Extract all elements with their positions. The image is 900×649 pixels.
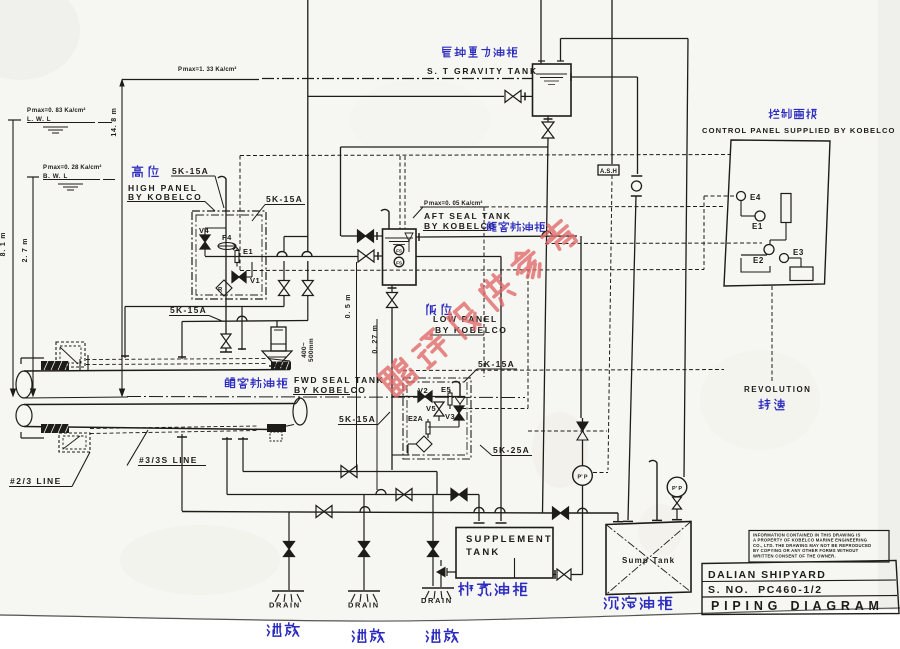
svg-text:P max=1. 33 Ka/cm²: P max=1. 33 Ka/cm²	[178, 66, 237, 73]
svg-text:DALIAN SHIPYARD: DALIAN SHIPYARD	[708, 569, 826, 581]
svg-text:SUPPLEMENT: SUPPLEMENT	[466, 534, 553, 545]
svg-text:V5: V5	[426, 404, 436, 413]
svg-text:REVOLUTION: REVOLUTION	[744, 385, 811, 394]
svg-text:F4: F4	[222, 233, 232, 242]
svg-text:#3/3S LINE: #3/3S LINE	[139, 455, 198, 465]
svg-text:V1: V1	[250, 276, 260, 285]
svg-text:R: R	[218, 288, 223, 294]
svg-text:WRITTEN CONSENT OF THE OWNER.: WRITTEN CONSENT OF THE OWNER.	[753, 553, 836, 558]
svg-text:A.S.H: A.S.H	[600, 169, 617, 175]
svg-text:5K-15A: 5K-15A	[478, 359, 515, 369]
svg-text:V3: V3	[445, 412, 455, 421]
svg-text:P max=0. 83 Ka/cm²: P max=0. 83 Ka/cm²	[27, 107, 86, 114]
svg-text:8. 1 m: 8. 1 m	[0, 232, 7, 257]
svg-text:BY KOBELCO: BY KOBELCO	[294, 385, 367, 395]
svg-text:5K-15A: 5K-15A	[172, 166, 209, 176]
svg-text:E1: E1	[752, 222, 763, 231]
svg-text:E2A: E2A	[408, 414, 424, 423]
svg-text:S. T GRAVITY TANK: S. T GRAVITY TANK	[427, 66, 538, 76]
svg-text:E1: E1	[243, 247, 253, 256]
svg-text:5K-15A: 5K-15A	[170, 305, 207, 315]
svg-text:Sump Tank: Sump Tank	[622, 556, 675, 565]
svg-text:P’ P: P’ P	[672, 486, 682, 492]
svg-text:P max=0. 05 Ka/cm²: P max=0. 05 Ka/cm²	[424, 200, 483, 207]
svg-text:V2: V2	[418, 386, 428, 395]
svg-text:E5: E5	[441, 385, 451, 394]
svg-text:DRAIN: DRAIN	[269, 601, 301, 610]
svg-text:400~: 400~	[301, 342, 308, 358]
svg-text:0. 5 m: 0. 5 m	[345, 294, 352, 319]
svg-text:500mm: 500mm	[308, 338, 315, 362]
svg-text:5K-25A: 5K-25A	[493, 445, 530, 455]
svg-text:FS: FS	[396, 249, 402, 254]
svg-text:FS: FS	[396, 261, 402, 266]
svg-text:BY KOBELCO: BY KOBELCO	[128, 192, 203, 202]
svg-text:E2: E2	[753, 256, 764, 265]
svg-text:FWD SEAL TANK: FWD SEAL TANK	[294, 375, 384, 385]
svg-text:P’ P: P’ P	[577, 475, 587, 481]
svg-text:CONTROL PANEL SUPPLIED BY KOBE: CONTROL PANEL SUPPLIED BY KOBELCO	[702, 126, 896, 135]
svg-text:E3: E3	[793, 248, 804, 257]
svg-text:E4: E4	[750, 193, 761, 202]
svg-text:DRAIN: DRAIN	[421, 596, 453, 605]
svg-text:0. 27 m: 0. 27 m	[372, 324, 379, 353]
svg-text:PIPING DIAGRAM: PIPING DIAGRAM	[711, 599, 884, 613]
svg-text:BY KOBELCO: BY KOBELCO	[424, 221, 497, 231]
svg-text:2. 7 m: 2. 7 m	[22, 238, 29, 263]
svg-text:DRAIN: DRAIN	[348, 601, 380, 610]
svg-text:5K-15A: 5K-15A	[266, 194, 303, 204]
svg-text:14. 8 m: 14. 8 m	[111, 107, 118, 136]
svg-text:5K-15A: 5K-15A	[339, 414, 376, 424]
svg-text:AFT SEAL TANK: AFT SEAL TANK	[424, 211, 512, 221]
svg-text:#2/3 LINE: #2/3 LINE	[10, 476, 62, 486]
svg-text:P max=0. 28 Ka/cm²: P max=0. 28 Ka/cm²	[43, 164, 102, 171]
svg-text:BY KOBELCO: BY KOBELCO	[435, 325, 508, 335]
svg-text:TANK: TANK	[466, 547, 500, 558]
svg-text:V4: V4	[199, 226, 210, 235]
svg-text:S. NO. PC460-1/2: S. NO. PC460-1/2	[708, 584, 823, 596]
